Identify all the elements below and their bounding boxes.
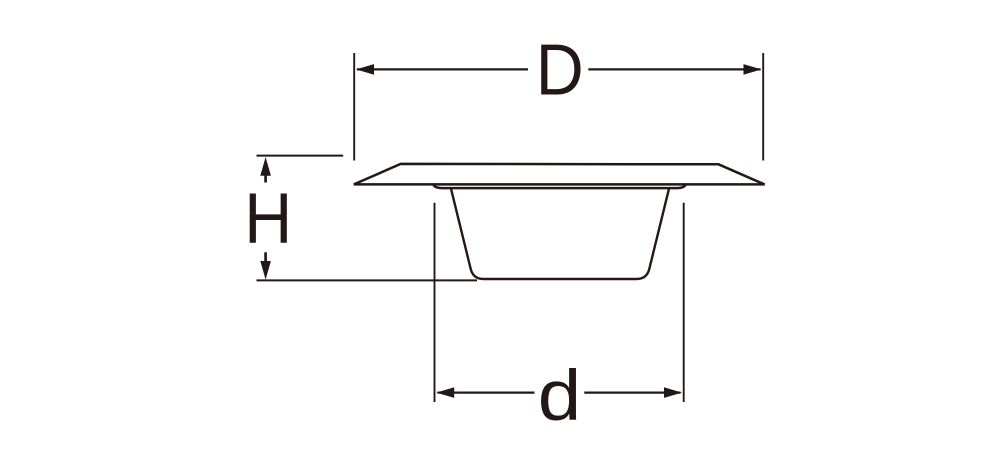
d dimension: left extension line [434, 203, 436, 402]
D dimension: left extension line [353, 53, 355, 161]
H up arrow stem [264, 175, 267, 183]
flange (part top plate outline) [354, 164, 765, 185]
H up arrowhead [260, 157, 271, 176]
D right arrowhead [744, 64, 762, 75]
d dimension: right extension line [683, 203, 685, 402]
svg-text:D: D [536, 31, 584, 111]
D dimension line left segment [357, 68, 528, 70]
basket (tapered cup below flange) [451, 189, 669, 279]
D dimension line right segment [588, 68, 760, 70]
d left arrowhead [436, 387, 454, 398]
D dimension: right extension line [762, 53, 764, 161]
H down arrowhead [260, 261, 271, 280]
H dimension: top line [257, 155, 344, 157]
svg-text:H: H [244, 180, 292, 259]
d right arrowhead [664, 387, 682, 398]
d dimension line left segment [438, 391, 535, 393]
neck lip line under flange [434, 185, 686, 188]
H down arrow stem [264, 252, 267, 262]
d dimension line right segment [584, 391, 680, 393]
D left arrowhead [356, 64, 374, 75]
svg-text:d: d [538, 357, 582, 436]
H dimension: bottom line [257, 279, 478, 281]
